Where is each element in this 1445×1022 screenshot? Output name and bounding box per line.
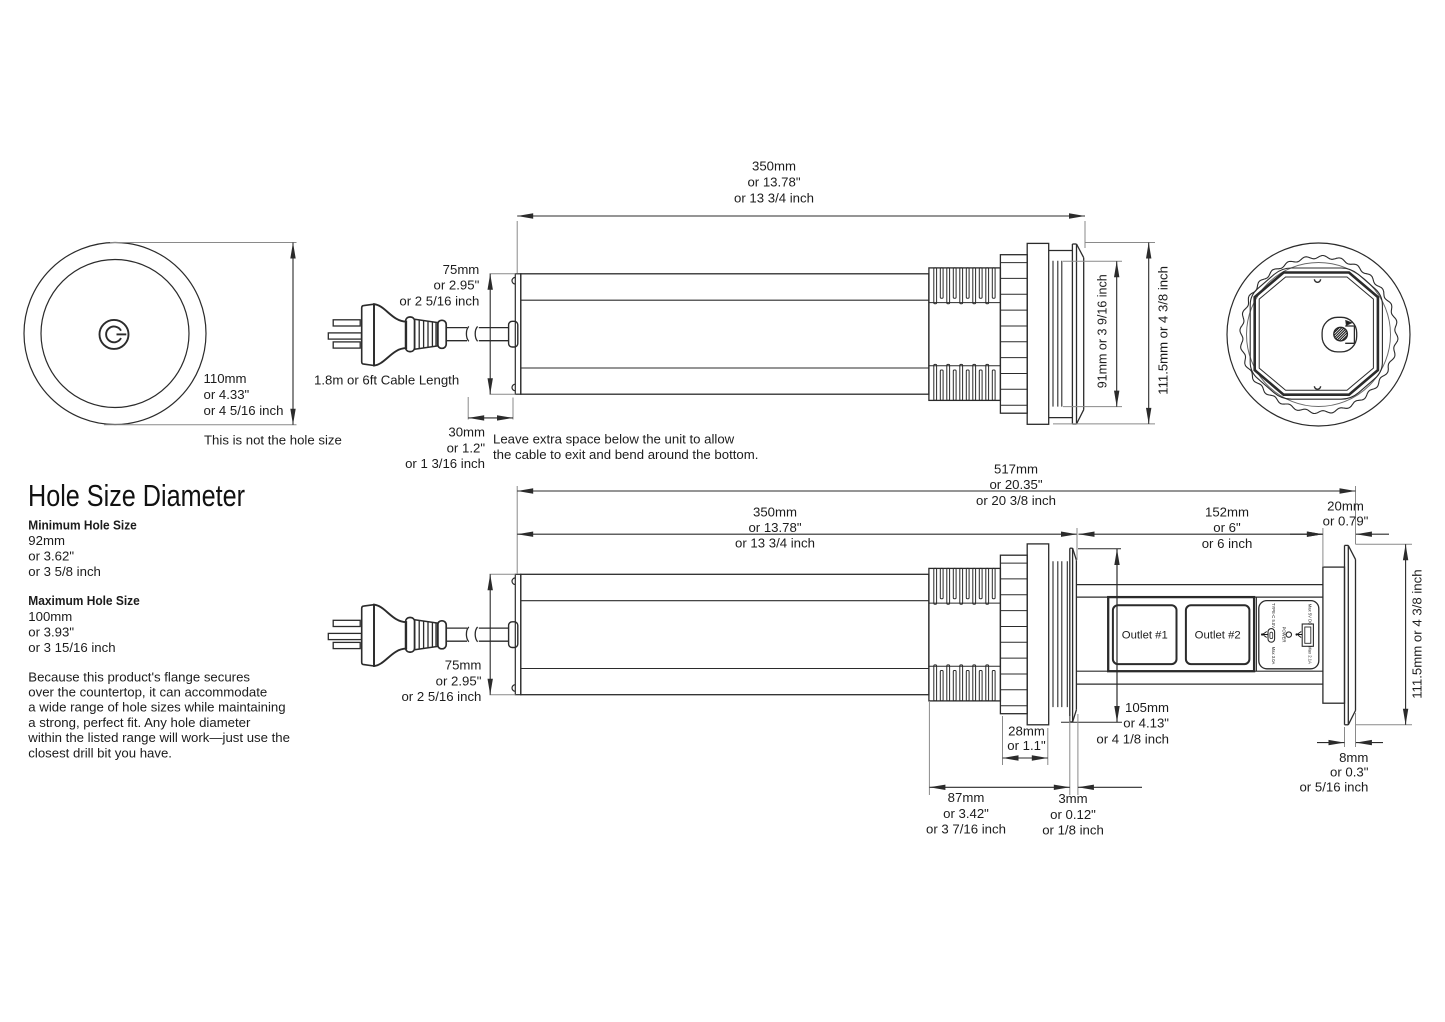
cable break bbox=[466, 627, 468, 642]
svg-text:or 1.1": or 1.1" bbox=[1007, 738, 1046, 753]
usb panel bbox=[1259, 601, 1319, 669]
dim 110mm arrow line bbox=[292, 243, 294, 425]
plug prong top bbox=[333, 620, 360, 626]
svg-text:or 3.62": or 3.62" bbox=[28, 549, 74, 564]
lock nut bbox=[1000, 555, 1027, 714]
outlet 1 bbox=[1113, 605, 1177, 664]
svg-text:Maximum Hole Size: Maximum Hole Size bbox=[28, 593, 140, 608]
dim 75mm bottom: line bbox=[489, 574, 491, 694]
svg-text:Max 5V DC: Max 5V DC bbox=[1308, 604, 1313, 625]
lid neck bottom line bbox=[1049, 417, 1073, 419]
popup body top edge bbox=[1077, 584, 1323, 586]
svg-text:105mm: 105mm bbox=[1125, 700, 1169, 715]
end cap screw top bbox=[512, 277, 515, 284]
usb trident left bbox=[1262, 632, 1268, 638]
svg-text:or 3.42": or 3.42" bbox=[943, 806, 989, 821]
plug bell body bbox=[374, 605, 406, 666]
dim 91mm: line bbox=[1116, 261, 1118, 406]
svg-text:or 5/16 inch: or 5/16 inch bbox=[1299, 779, 1368, 794]
flange outer ring (closed lid) bbox=[1071, 244, 1073, 424]
plug back cap bbox=[362, 605, 374, 666]
plug prong middle bbox=[328, 633, 361, 639]
svg-text:Hole Size Diameter: Hole Size Diameter bbox=[28, 478, 245, 513]
screw slot top bbox=[1314, 279, 1320, 282]
svg-text:or 6 inch: or 6 inch bbox=[1202, 536, 1253, 551]
top view circle: inner face bbox=[41, 260, 189, 408]
svg-text:a strong, perfect fit. Any hol: a strong, perfect fit. Any hole diameter bbox=[28, 715, 251, 730]
cylinder upper line bbox=[521, 299, 929, 301]
svg-text:92mm: 92mm bbox=[28, 533, 65, 548]
cable port outline bbox=[1322, 317, 1357, 352]
popup body bottom edge bbox=[1077, 683, 1323, 685]
cable break bbox=[466, 326, 468, 341]
svg-text:or 1 3/16 inch: or 1 3/16 inch bbox=[405, 456, 485, 471]
dim 3mm: right line bbox=[1078, 786, 1142, 788]
cable entry stub bbox=[509, 622, 518, 648]
svg-text:or 1/8 inch: or 1/8 inch bbox=[1042, 823, 1104, 838]
plug prong middle bbox=[328, 333, 361, 339]
svg-text:8mm: 8mm bbox=[1339, 750, 1368, 765]
mounting octagon bold bbox=[1255, 273, 1378, 395]
cylinder lower line bbox=[521, 367, 929, 369]
svg-text:20mm: 20mm bbox=[1327, 499, 1364, 514]
dim 517mm: extensions bbox=[516, 486, 518, 574]
svg-text:or 0.3": or 0.3" bbox=[1330, 765, 1369, 780]
svg-text:or 20 3/8 inch: or 20 3/8 inch bbox=[976, 493, 1056, 508]
cap neck bbox=[1323, 567, 1345, 703]
dim 350mm bottom: line bbox=[517, 533, 1077, 535]
dim 111.5mm top: line bbox=[1148, 243, 1150, 424]
svg-text:91mm or 3 9/16 inch: 91mm or 3 9/16 inch bbox=[1095, 274, 1110, 388]
svg-text:This is not the hole size: This is not the hole size bbox=[204, 433, 342, 448]
svg-text:or 6": or 6" bbox=[1213, 520, 1241, 535]
top view circle: outer rim bbox=[24, 243, 206, 425]
dim 152 right ext bbox=[1322, 528, 1324, 567]
dim 30mm: extensions bbox=[467, 397, 469, 420]
svg-text:350mm: 350mm bbox=[753, 504, 797, 519]
svg-text:TYPE-C 5.0V: TYPE-C 5.0V bbox=[1271, 603, 1276, 628]
flange plate bbox=[1027, 243, 1049, 424]
thread block bbox=[929, 268, 1001, 401]
cylinder body bbox=[521, 574, 929, 694]
svg-text:Leave extra space below the un: Leave extra space below the unit to allo… bbox=[493, 432, 735, 447]
recess divider line bbox=[1255, 597, 1257, 671]
svg-text:or 13 3/4 inch: or 13 3/4 inch bbox=[734, 190, 814, 205]
usb-c port icon bbox=[1268, 629, 1275, 643]
dim 87mm: left ext bbox=[928, 702, 930, 795]
flange opening (rounded octagon) bbox=[1250, 268, 1382, 399]
svg-text:350mm: 350mm bbox=[752, 159, 796, 174]
svg-text:30mm: 30mm bbox=[448, 425, 485, 440]
dim 350mm top: line bbox=[517, 215, 1085, 217]
svg-text:or 2 5/16 inch: or 2 5/16 inch bbox=[399, 293, 479, 308]
thread ribs top bbox=[934, 268, 937, 304]
svg-text:or 2.95": or 2.95" bbox=[436, 673, 482, 688]
outlet recess frame bbox=[1108, 597, 1254, 671]
cable port bracket bbox=[1345, 326, 1354, 343]
svg-text:517mm: 517mm bbox=[994, 461, 1038, 476]
plug collar 2 bbox=[438, 320, 447, 348]
svg-text:75mm: 75mm bbox=[443, 262, 480, 277]
svg-text:or 4 1/8 inch: or 4 1/8 inch bbox=[1096, 732, 1169, 747]
cylinder body bbox=[521, 274, 929, 394]
svg-text:152mm: 152mm bbox=[1205, 505, 1249, 520]
svg-text:or 13.78": or 13.78" bbox=[747, 175, 800, 190]
svg-text:87mm: 87mm bbox=[948, 790, 985, 805]
outlet 2 bbox=[1186, 605, 1250, 664]
plug back cap bbox=[362, 304, 374, 365]
svg-text:within the listed range will w: within the listed range will work—just u… bbox=[27, 730, 290, 745]
svg-text:closest drill bit you have.: closest drill bit you have. bbox=[28, 745, 172, 760]
plug collar 2 bbox=[438, 621, 447, 649]
bottom view inner ring bbox=[1247, 263, 1391, 407]
dim 105mm: line bbox=[1116, 549, 1118, 722]
dim 75mm bottom: extensions bbox=[490, 573, 516, 575]
popup body bottom inner line bbox=[1077, 670, 1323, 672]
dim 350mm top: extensions bbox=[516, 221, 518, 273]
dim 75mm top: extensions bbox=[490, 273, 516, 275]
svg-text:or 1.2": or 1.2" bbox=[447, 440, 486, 455]
svg-text:or 4 5/16 inch: or 4 5/16 inch bbox=[204, 403, 284, 418]
svg-text:or 20.35": or 20.35" bbox=[989, 477, 1042, 492]
svg-text:over the countertop, it can ac: over the countertop, it can accommodate bbox=[28, 685, 267, 700]
mounting octagon inner line bbox=[1259, 277, 1373, 390]
svg-text:75mm: 75mm bbox=[445, 658, 482, 673]
extra gasket line bottom bbox=[1066, 561, 1068, 707]
gasket lines bbox=[1052, 261, 1054, 407]
svg-text:28mm: 28mm bbox=[1008, 724, 1045, 739]
plug prong bottom bbox=[333, 642, 360, 648]
dim 8mm: lines bbox=[1317, 742, 1345, 744]
svg-text:100mm: 100mm bbox=[28, 609, 72, 624]
svg-text:or 4.33": or 4.33" bbox=[204, 387, 250, 402]
plug prong bottom bbox=[333, 342, 360, 348]
cylinder upper line bbox=[521, 600, 929, 602]
dim 91mm: extensions bbox=[1063, 260, 1122, 262]
popup body top inner line bbox=[1077, 596, 1323, 598]
flange plate bbox=[1027, 544, 1049, 725]
dim 517mm: line bbox=[517, 490, 1355, 492]
dim 28mm: line bbox=[1003, 757, 1048, 759]
plug prong top bbox=[333, 320, 360, 326]
dim 87mm: line bbox=[929, 786, 1069, 788]
dim 152mm: line bbox=[1079, 533, 1323, 535]
svg-text:111.5mm or 4 3/8 inch: 111.5mm or 4 3/8 inch bbox=[1156, 266, 1171, 395]
svg-text:or 0.12": or 0.12" bbox=[1050, 807, 1096, 822]
end cap screw top bbox=[512, 578, 515, 585]
bottom view outer circle bbox=[1227, 243, 1410, 426]
cylinder lower line bbox=[521, 668, 929, 670]
bottom view scalloped ring bbox=[1240, 256, 1398, 414]
svg-text:or 3 15/16 inch: or 3 15/16 inch bbox=[28, 640, 115, 655]
screw slot bottom bbox=[1314, 386, 1320, 389]
dim 75mm top: line bbox=[489, 274, 491, 394]
end cap screw bottom bbox=[512, 685, 515, 692]
svg-text:or 3.93": or 3.93" bbox=[28, 624, 74, 639]
svg-text:Outlet #1: Outlet #1 bbox=[1122, 630, 1168, 642]
svg-text:Max 3.0A: Max 3.0A bbox=[1271, 647, 1276, 665]
cylinder end cap bbox=[515, 574, 521, 694]
dim 110mm extension lines bbox=[110, 242, 297, 244]
cable segment A bbox=[446, 627, 467, 629]
plug ferrule bbox=[415, 620, 438, 650]
svg-text:111.5mm or 4 3/8 inch: 111.5mm or 4 3/8 inch bbox=[1410, 569, 1425, 698]
dim 105mm: extensions bbox=[1078, 548, 1121, 550]
svg-text:or 13.78": or 13.78" bbox=[748, 520, 801, 535]
power button ring bbox=[100, 320, 129, 349]
svg-text:or 0.79": or 0.79" bbox=[1323, 513, 1369, 528]
power button glyph bbox=[106, 327, 121, 343]
cylinder end cap bbox=[515, 274, 521, 394]
dim 111.5mm bottom: extensions bbox=[1356, 543, 1412, 545]
svg-text:Outlet #2: Outlet #2 bbox=[1195, 630, 1241, 642]
end cap screw bottom bbox=[512, 384, 515, 391]
svg-text:or 2 5/16 inch: or 2 5/16 inch bbox=[401, 689, 481, 704]
svg-text:or 2.95": or 2.95" bbox=[434, 278, 480, 293]
svg-text:a wide range of hole sizes whi: a wide range of hole sizes while maintai… bbox=[28, 700, 285, 715]
dim 3mm: extensions bbox=[1069, 716, 1071, 795]
dim 30mm: line bbox=[468, 417, 513, 419]
plug collar 1 bbox=[406, 317, 415, 352]
dim 111.5mm bottom: line bbox=[1405, 544, 1407, 725]
cable segment A bbox=[446, 327, 467, 329]
dim 8mm: extensions bbox=[1344, 727, 1346, 747]
svg-text:Because this product's flange: Because this product's flange secures bbox=[28, 669, 250, 684]
lid neck top line bbox=[1049, 250, 1073, 252]
usb-a port icon bbox=[1302, 624, 1313, 646]
plug bell body bbox=[374, 304, 406, 365]
lid plate bbox=[1344, 545, 1346, 724]
svg-text:or 4.13": or 4.13" bbox=[1123, 716, 1169, 731]
cable port flag bbox=[1346, 321, 1352, 326]
svg-text:or 13 3/4 inch: or 13 3/4 inch bbox=[735, 536, 815, 551]
plug collar 1 bbox=[406, 618, 415, 653]
svg-text:1.8m or 6ft Cable Length: 1.8m or 6ft Cable Length bbox=[314, 372, 459, 387]
gasket lines bbox=[1052, 561, 1054, 707]
plug ferrule bbox=[415, 319, 438, 349]
svg-text:110mm: 110mm bbox=[204, 371, 247, 386]
cable entry stub bbox=[509, 321, 518, 347]
thread ribs bottom bbox=[934, 364, 937, 400]
usb trident right bbox=[1296, 632, 1302, 638]
svg-text:or 3 7/16 inch: or 3 7/16 inch bbox=[926, 822, 1006, 837]
dim 28mm: extensions bbox=[1002, 716, 1004, 765]
power led bbox=[1286, 632, 1291, 637]
thread ribs top bbox=[934, 568, 937, 604]
cable segment B bbox=[479, 627, 509, 629]
dim 20mm arrows bbox=[1290, 533, 1323, 535]
thread ribs bottom bbox=[934, 665, 937, 701]
svg-text:the cable to exit and bend aro: the cable to exit and bend around the bo… bbox=[493, 447, 758, 462]
cable segment B bbox=[479, 327, 509, 329]
dim 111.5mm top: extensions bbox=[1085, 242, 1155, 244]
svg-text:Minimum Hole Size: Minimum Hole Size bbox=[28, 517, 137, 532]
svg-text:or 3 5/8 inch: or 3 5/8 inch bbox=[28, 564, 101, 579]
flange face plate bbox=[1069, 548, 1071, 722]
lock nut bbox=[1000, 255, 1027, 414]
svg-text:Max 2.1A: Max 2.1A bbox=[1308, 646, 1313, 664]
dim 350 right ext bbox=[1076, 528, 1078, 560]
thread block bbox=[929, 568, 1001, 701]
svg-text:3mm: 3mm bbox=[1058, 791, 1087, 806]
